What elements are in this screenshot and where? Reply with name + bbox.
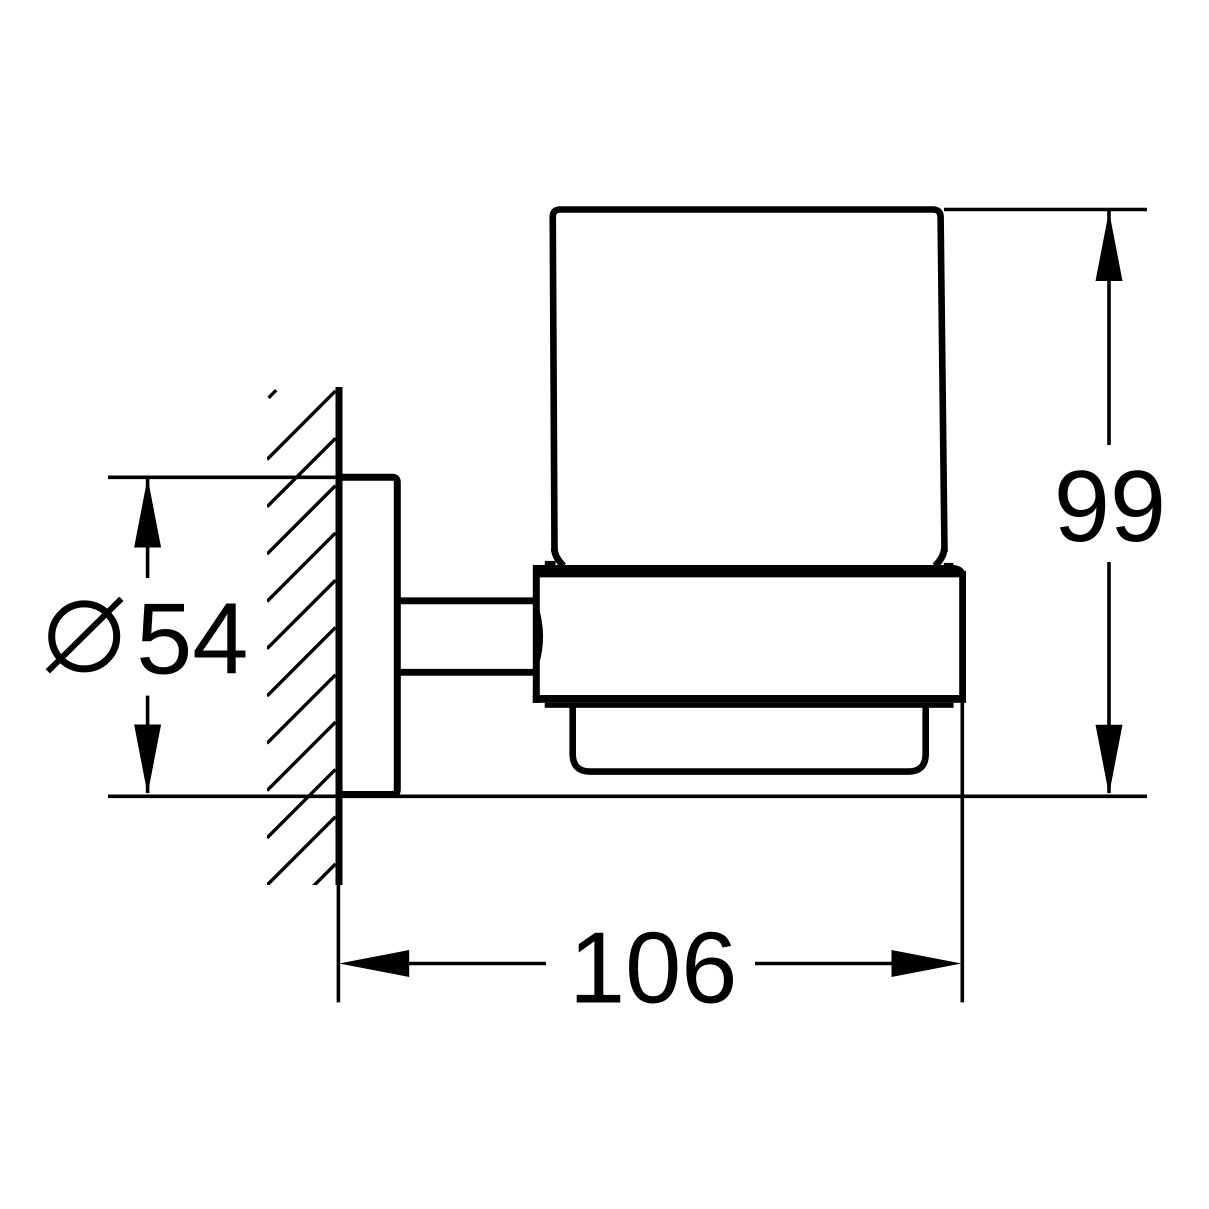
svg-text:54: 54 <box>136 584 248 696</box>
svg-text:99: 99 <box>1054 451 1166 563</box>
svg-text:106: 106 <box>569 912 738 1024</box>
